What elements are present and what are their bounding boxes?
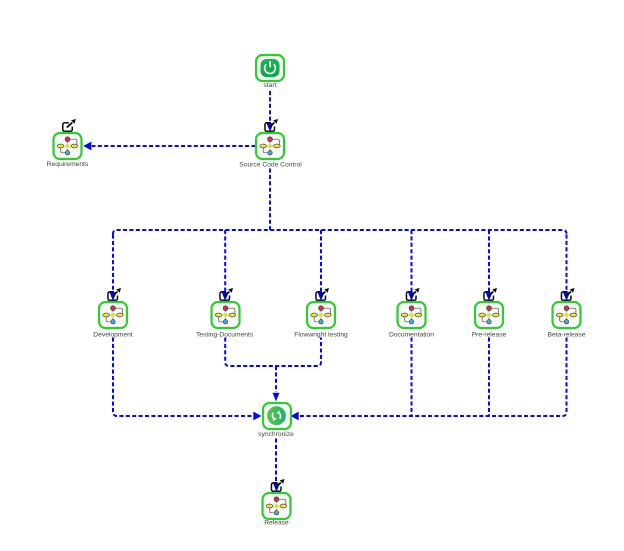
svg-text:Requirements: Requirements — [47, 161, 89, 168]
svg-text:synchronize: synchronize — [258, 431, 294, 438]
svg-text:Source Code Control: Source Code Control — [239, 162, 302, 169]
svg-text:Pre-release: Pre-release — [472, 331, 507, 338]
svg-text:Flowwright testing: Flowwright testing — [294, 331, 348, 338]
svg-text:Development: Development — [93, 331, 133, 338]
svg-text:Beta-release: Beta-release — [548, 331, 586, 338]
svg-text:Testing-Documents: Testing-Documents — [196, 331, 254, 338]
svg-text:start: start — [263, 82, 276, 89]
svg-text:Release: Release — [264, 520, 289, 527]
svg-text:Documentation: Documentation — [389, 331, 434, 338]
